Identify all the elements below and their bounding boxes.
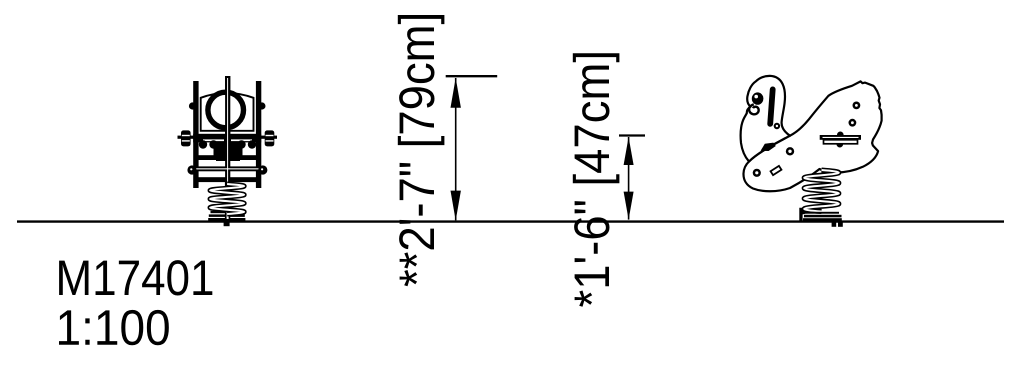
left rider: base plate stack bbox=[211, 211, 243, 213]
dim1 label text **2'-7" [79cm] rotated bbox=[398, 15, 445, 286]
right rider: spring (tube coil) bbox=[804, 170, 839, 212]
dimension line 2 vertical 1'-6" bbox=[619, 136, 645, 220]
dim2: extension tick at 47cm height bbox=[619, 134, 645, 136]
left rider: right post lug upper bbox=[258, 102, 265, 109]
left rider: axle white dash right bbox=[231, 139, 252, 141]
left rider: frame bar 2 double bbox=[195, 166, 261, 171]
dim2: bottom arrowhead bbox=[624, 192, 634, 220]
ground line bbox=[17, 220, 1004, 222]
dimension line 1 vertical 2'-7" bbox=[446, 76, 498, 220]
right rider: bolt below handlebar bbox=[774, 123, 780, 129]
left rider: right post bbox=[256, 81, 261, 188]
dim1: top arrowhead bbox=[451, 78, 461, 108]
right rider: grip curl bbox=[749, 104, 759, 114]
left rider: axle band bbox=[193, 134, 261, 143]
left rider: axle right extension bbox=[261, 136, 277, 139]
right rider: footrest top bar bbox=[820, 135, 861, 140]
left rider: center post upper segment over ring bbox=[225, 76, 230, 136]
left rider: spring (tube coil) bbox=[210, 184, 244, 214]
left rider: center post bbox=[225, 76, 230, 214]
left rider: left outer lug with hole bbox=[187, 165, 196, 174]
left rider: left post bbox=[193, 81, 198, 188]
right rider: slanted rectangle detail bbox=[771, 166, 782, 175]
right rider: footrest lower bar bbox=[824, 140, 858, 144]
left rider: seat block bbox=[214, 142, 243, 162]
right rider: saddle bolt upper bbox=[853, 102, 861, 110]
right rider: wedge detail bbox=[761, 143, 776, 151]
right rider: saddle bolt lower bbox=[849, 119, 857, 127]
right rider: arm bolt bbox=[753, 169, 761, 177]
left rider: left post lug upper bbox=[189, 102, 196, 109]
left rider: lug row under axle bbox=[199, 140, 207, 148]
right rider: handlebar bar bbox=[770, 89, 773, 123]
right rider: footrest top bump bbox=[837, 132, 844, 139]
right rider: base bracket bbox=[799, 208, 843, 227]
dim1: extension tick at 79cm height bbox=[446, 75, 498, 77]
right rider: base plate stack bbox=[806, 212, 839, 214]
right rider: saddle body and seat arm silhouette bbox=[743, 81, 881, 191]
drawing number text M17401 bbox=[59, 260, 212, 295]
left rider: base foot bbox=[224, 221, 230, 226]
left rider: center stem white slit bbox=[227, 78, 228, 212]
scale text 1:100 bbox=[59, 310, 169, 345]
right rider: footrest bottom bump bbox=[837, 141, 844, 148]
right rider side view group bbox=[741, 76, 882, 191]
left rider: center stem lower bbox=[225, 180, 230, 220]
left rider M17401 front view group bbox=[178, 76, 278, 226]
left rider: handlebar ring bbox=[208, 92, 244, 128]
dim1: bottom arrowhead bbox=[451, 191, 461, 221]
left rider: frame bar 3 bbox=[195, 177, 261, 182]
right rider: base feet bbox=[832, 221, 837, 226]
left rider: right axle knob bbox=[265, 130, 275, 146]
dim2: vertical dimension line bbox=[628, 137, 630, 220]
right rider: neck and head bbox=[741, 76, 790, 162]
left rider: left axle knob bbox=[181, 130, 191, 146]
left rider: right outer lug with hole bbox=[258, 165, 267, 174]
dim2 label text *1'-6" [47cm] rotated bbox=[573, 53, 620, 307]
left rider: axle white dash left bbox=[203, 139, 224, 141]
left rider: axle left extension bbox=[178, 136, 194, 139]
left rider: backrest panel bbox=[201, 93, 254, 131]
left rider: frame bar 1 bbox=[195, 155, 261, 160]
dim2: top arrowhead bbox=[624, 137, 634, 165]
right rider: mid bolt bbox=[786, 147, 794, 155]
dim1: vertical dimension line bbox=[455, 78, 457, 220]
right rider: hand grip blob bbox=[752, 92, 764, 104]
